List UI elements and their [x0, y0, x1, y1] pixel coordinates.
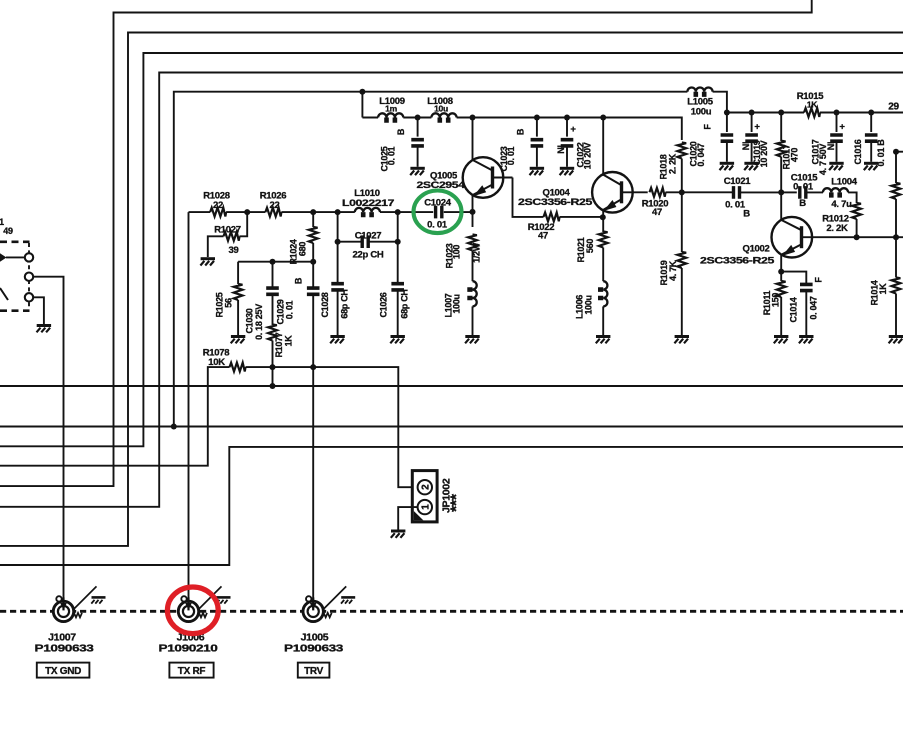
ground (C1017): [829, 163, 844, 170]
svg-text:47: 47: [538, 231, 548, 242]
junction C1027 right: [395, 239, 401, 245]
svg-text:1: 1: [420, 504, 431, 510]
wire net-5 right segment: [713, 92, 727, 113]
svg-text:+: +: [839, 122, 845, 133]
wire R1022 to Q1004 emitter: [560, 216, 604, 218]
capacitor C1021: [724, 176, 781, 220]
svg-text:10K: 10K: [208, 357, 225, 368]
wire R1017 bottom: [780, 157, 782, 193]
svg-text:Q1002: Q1002: [742, 244, 769, 255]
svg-text:10u: 10u: [434, 104, 448, 114]
svg-text:0. 01: 0. 01: [427, 220, 448, 231]
svg-text:2. 2K: 2. 2K: [668, 153, 678, 174]
label box TRV: [298, 663, 330, 678]
junction C1016 top: [868, 110, 874, 116]
connector JP1002: [412, 471, 465, 522]
junction C1022 top: [564, 115, 570, 121]
relay RL1001 (partial, dashed box): [0, 217, 30, 311]
wire Q1002 emitter: [780, 255, 782, 272]
wire R1021-L1006: [602, 248, 604, 282]
wire right edge stub: [896, 151, 903, 153]
svg-text:C1016: C1016: [853, 139, 863, 164]
resistor R1015: [797, 91, 825, 117]
wire R1018 bottom: [681, 159, 683, 253]
junction R1077/R1078 line: [270, 364, 276, 370]
wire net-B (y426.5): [0, 426, 903, 428]
wire L rail: [362, 117, 378, 119]
svg-text:0. 01: 0. 01: [285, 300, 295, 319]
relay contact pin bottom: [25, 293, 33, 301]
junction C1030 top: [270, 259, 276, 265]
wire R1027 to ground: [208, 236, 224, 257]
wire C1016 to ground: [870, 141, 872, 162]
wire R1011 top: [780, 272, 782, 281]
svg-text:47: 47: [652, 207, 662, 218]
wire R1020 to node: [666, 191, 734, 193]
label box TX GND: [37, 663, 90, 678]
wire C rail right: [820, 112, 903, 114]
wire L1006 to ground: [602, 306, 604, 335]
svg-text:B: B: [799, 198, 806, 209]
svg-text:68p CH: 68p CH: [340, 289, 350, 318]
wire L rail seg: [403, 117, 431, 119]
wire relay bottom contact to ground: [33, 297, 44, 324]
capacitor C1014: [789, 277, 824, 323]
svg-text:C1028: C1028: [320, 292, 330, 317]
svg-text:R1077: R1077: [274, 332, 284, 357]
wire net-A (y386): [0, 385, 903, 387]
ground (C1020): [720, 163, 735, 170]
svg-text:470: 470: [790, 148, 800, 162]
wire L1007 to ground: [472, 306, 474, 335]
svg-text:4. 7 50V: 4. 7 50V: [818, 144, 828, 175]
svg-text:0. 047: 0. 047: [809, 296, 819, 320]
svg-text:2SC3356-R25: 2SC3356-R25: [700, 256, 775, 267]
junction Q1002 emitter node: [778, 269, 784, 275]
junction rail/R1024: [310, 209, 316, 215]
svg-text:0. 047: 0. 047: [696, 143, 706, 167]
svg-text:2SC3356-R25: 2SC3356-R25: [518, 197, 593, 208]
inductor L1004: [823, 176, 858, 210]
wire C rail: [727, 112, 804, 114]
wire net-D (to R1078): [0, 367, 230, 466]
svg-text:F: F: [814, 277, 824, 283]
junction C1029/R1078 line: [310, 364, 316, 370]
ground (R1027): [200, 259, 215, 266]
resistor R1024: [289, 227, 318, 265]
wire right column lower: [895, 199, 897, 237]
junction C1019 top: [749, 110, 755, 116]
resistor R1077: [268, 325, 293, 358]
svg-text:4. 7u: 4. 7u: [831, 199, 852, 210]
capacitor C1029: [276, 277, 320, 324]
svg-text:L0022217: L0022217: [342, 198, 394, 209]
inductor L1010: [342, 188, 394, 217]
wire net-5 drop: [361, 92, 363, 118]
svg-text:100u: 100u: [452, 294, 462, 313]
ground (R1014): [889, 337, 903, 344]
svg-text:100u: 100u: [584, 295, 594, 314]
junction rail/R1027: [244, 209, 250, 215]
ground (C1022): [560, 168, 575, 175]
wire JP1002 pin1 to ground: [398, 507, 417, 529]
wire Q1004 emitter: [602, 210, 604, 232]
junction right stub: [893, 149, 899, 155]
wire relay middle contact to J1007: [33, 277, 63, 603]
svg-text:B: B: [516, 128, 526, 135]
svg-text:150: 150: [771, 293, 781, 307]
relay contact pin top: [6, 253, 33, 261]
svg-text:56: 56: [224, 298, 234, 308]
wire L rail seg2: [457, 118, 682, 141]
capacitor C1017 (NI): [810, 113, 845, 176]
wire C1017 to ground: [836, 141, 838, 162]
svg-text:C1014: C1014: [789, 297, 799, 322]
resistor R1019: [659, 252, 686, 286]
ground (C1019): [744, 163, 759, 170]
ground (C1025): [410, 168, 425, 175]
inductor L1009: [378, 96, 405, 123]
annotation red circle (J1006): [167, 587, 218, 634]
svg-text:1K: 1K: [284, 335, 294, 347]
wire rail seg to Q1005 emitter: [444, 211, 473, 213]
inductor L1008: [427, 96, 456, 123]
wire J1006 feeder: [188, 212, 190, 602]
svg-text:NI: NI: [741, 142, 751, 150]
junction rail/C1026: [395, 209, 401, 215]
svg-text:1K: 1K: [807, 100, 818, 110]
junction R1017 top: [778, 110, 784, 116]
svg-text:+: +: [754, 122, 760, 133]
svg-text:22p CH: 22p CH: [353, 250, 384, 261]
capacitor C1027: [338, 231, 398, 261]
svg-text:68p CH: 68p CH: [400, 289, 410, 318]
capacitor C1025: [380, 118, 424, 172]
svg-text:0. 01: 0. 01: [506, 146, 516, 165]
junction Q1004 emitter node: [600, 214, 606, 220]
ground (C1016): [864, 163, 879, 170]
ground (JP1002): [391, 531, 406, 538]
inductor L1007: [444, 281, 477, 317]
connector J1007: [35, 586, 106, 654]
svg-text:P1090633: P1090633: [284, 642, 344, 654]
svg-text:22: 22: [270, 200, 280, 211]
ground (L1007): [465, 337, 480, 344]
wire C1029 to J1005: [312, 294, 314, 602]
svg-text:C1027: C1027: [355, 231, 382, 242]
svg-text:NI: NI: [556, 145, 566, 153]
svg-text:TRV: TRV: [304, 666, 324, 677]
svg-text:1m: 1m: [385, 104, 397, 114]
wire R1014 to ground: [895, 294, 897, 336]
wire net-5 (to L1005 rail): [174, 92, 688, 427]
resistor R1017: [777, 113, 800, 170]
svg-text:2. 2K: 2. 2K: [826, 223, 848, 234]
junction R1018/R1020/C1021: [679, 189, 685, 195]
wire R1025 column: [237, 262, 239, 284]
wire C1019 to ground: [751, 141, 753, 162]
svg-text:TX GND: TX GND: [45, 666, 81, 677]
wire rail seg: [281, 211, 354, 213]
label box TX RF: [169, 663, 213, 678]
resistor R1012: [822, 203, 861, 234]
relay contact pin middle: [25, 273, 33, 281]
connector J1006: [159, 586, 231, 654]
resistor R1021: [576, 232, 608, 263]
resistor R1014: [870, 278, 901, 306]
wire R1024 bottom: [312, 243, 314, 288]
resistor R1028: [203, 191, 230, 217]
inductor L1005: [687, 88, 713, 118]
svg-text:560: 560: [585, 239, 595, 253]
wire C1022 to ground: [566, 146, 568, 167]
svg-text:29: 29: [888, 102, 899, 113]
wire C1030-R1077: [272, 294, 274, 325]
wire mid rail left: [189, 211, 211, 213]
junction Q1005 collector top: [470, 115, 476, 121]
junction Q1002 collector node: [778, 189, 784, 195]
wire C1020 to ground: [726, 141, 728, 162]
wire B rail seg: [781, 191, 797, 193]
wire R1077 bottom: [272, 341, 274, 387]
resistor R1022: [528, 213, 560, 242]
wire R1027 branch: [240, 212, 248, 236]
resistor (cut off at right edge): [892, 183, 901, 199]
wire net-C (y446.9 via y565): [0, 447, 903, 565]
svg-text:C1021: C1021: [724, 176, 752, 187]
wire R1023-L1007: [472, 251, 474, 282]
svg-text:F: F: [703, 124, 713, 130]
wire rail seg: [380, 211, 433, 213]
wire C1030 column: [272, 262, 274, 288]
wire L1004 to R1012: [848, 192, 857, 203]
wire R1014 top: [895, 237, 897, 277]
svg-text:10 20V: 10 20V: [583, 142, 593, 169]
ground (C1014): [799, 337, 814, 344]
svg-text:P1090210: P1090210: [159, 642, 219, 654]
resistor R1078: [203, 348, 246, 372]
wire C1014 to ground: [805, 291, 807, 335]
capacitor C1026: [379, 284, 410, 319]
capacitor C1023: [499, 118, 543, 172]
svg-text:49: 49: [3, 226, 13, 236]
wire R1019 to ground: [681, 268, 683, 335]
svg-text:39: 39: [229, 245, 239, 256]
svg-text:B: B: [743, 209, 750, 220]
svg-text:22: 22: [213, 200, 223, 211]
wire C1026 to ground: [397, 290, 399, 335]
ground (L1006): [596, 337, 611, 344]
junction C1029 top: [310, 259, 316, 265]
transistor Q1002: [700, 217, 903, 267]
svg-text:1K: 1K: [878, 283, 888, 295]
svg-text:100u: 100u: [691, 107, 712, 118]
junction net-5/net-B: [171, 424, 177, 430]
capacitor C1030: [245, 288, 279, 340]
svg-text:R1027: R1027: [214, 224, 241, 235]
junction C1027 left: [335, 239, 341, 245]
wire net-1 (top bundle outer): [0, 0, 812, 486]
svg-text:0. 01: 0. 01: [793, 182, 814, 193]
wire C1028 to ground: [337, 290, 339, 335]
capacitor C1020: [689, 113, 734, 167]
capacitor C1028: [320, 284, 350, 319]
ground (R1019): [674, 337, 689, 344]
capacitor C1019 (NI): [741, 113, 769, 168]
wire net-3: [0, 53, 903, 446]
wire Q1005 collector: [472, 118, 474, 161]
svg-text:0. 01: 0. 01: [387, 146, 397, 165]
junction R1014 top: [893, 234, 899, 240]
wire dashed board edge: [0, 610, 903, 613]
capacitor C1022 (NI): [556, 118, 593, 170]
junction Q1004 collector top: [600, 115, 606, 121]
capacitor C1024: [424, 197, 452, 230]
ground (C1023): [530, 168, 545, 175]
wire right column: [895, 152, 897, 183]
connector J1005: [284, 586, 355, 654]
wire R1024 top: [312, 212, 314, 227]
svg-text:680: 680: [298, 242, 308, 256]
junction C1020 top: [724, 110, 730, 116]
wire net-4: [0, 73, 903, 507]
svg-text:B: B: [396, 128, 406, 135]
wire R1025 to ground: [237, 300, 239, 335]
junction R1077/net-A: [270, 383, 276, 389]
junction C1017 top: [834, 110, 840, 116]
capacitor C1015: [791, 173, 823, 210]
junction Q1005 emitter node: [470, 209, 476, 215]
resistor R1027: [214, 224, 241, 256]
resistor R1011: [762, 281, 786, 315]
annotation green circle (C1024): [414, 191, 462, 234]
svg-text:C1030: C1030: [245, 308, 255, 333]
junction R1012/Q1002 base: [854, 234, 860, 240]
svg-text:4. 7K: 4. 7K: [668, 260, 678, 281]
transistor Q1005: [417, 157, 513, 198]
transistor Q1004: [518, 172, 648, 213]
wire R1011 to ground: [780, 297, 782, 335]
svg-text:0. 18 25V: 0. 18 25V: [254, 304, 264, 340]
resistor R1025: [215, 284, 243, 318]
wire C1025 to ground: [417, 146, 419, 167]
svg-text:L1004: L1004: [831, 176, 857, 187]
wire emitter to C1014: [781, 272, 806, 285]
ground (C1028): [330, 337, 345, 344]
junction C1025 top: [415, 115, 421, 121]
resistor R1018: [659, 143, 687, 180]
inductor L1006: [575, 281, 608, 319]
wire Q1005 base route: [513, 178, 544, 217]
wire Q1002 collector: [780, 192, 782, 220]
svg-text:TX RF: TX RF: [178, 666, 206, 677]
resistor R1020: [642, 188, 669, 218]
svg-text:10 20V: 10 20V: [759, 140, 769, 167]
wire Q1005 emitter: [472, 195, 474, 227]
junction net-5/L1009: [359, 89, 365, 95]
ground (R1025): [231, 337, 246, 344]
svg-text:P1090633: P1090633: [35, 642, 95, 654]
junction C1023 top: [534, 115, 540, 121]
wire R1012 bottom: [856, 219, 858, 237]
svg-text:B: B: [294, 277, 304, 284]
wire C1026 column: [397, 212, 399, 284]
wire Q1004 collector: [602, 118, 604, 175]
svg-text:***: ***: [449, 493, 466, 512]
svg-text:C1026: C1026: [379, 292, 389, 317]
wire net-2: [0, 33, 903, 546]
wire y261.7 link: [238, 261, 313, 263]
wire C1023 to ground: [536, 146, 538, 167]
resistor R1026: [260, 191, 287, 217]
ground (relay): [37, 326, 52, 333]
svg-text:+: +: [570, 124, 576, 135]
resistor R1023: [445, 235, 482, 269]
junction rail/C1028: [335, 209, 341, 215]
capacitor C1016: [853, 113, 886, 167]
wire R1078 to JP1002 pin2: [246, 367, 418, 487]
svg-text:100: 100: [452, 245, 462, 259]
wire C1028 column: [337, 212, 339, 284]
wire rail seg: [226, 211, 265, 213]
ground (C1026): [390, 337, 405, 344]
svg-text:C1024: C1024: [424, 197, 452, 208]
ground (R1011): [774, 337, 789, 344]
svg-text:2: 2: [420, 484, 431, 490]
